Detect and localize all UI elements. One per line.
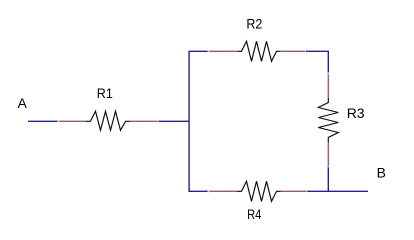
svg-text:R1: R1	[97, 85, 113, 101]
resistor R1	[57, 111, 160, 130]
resistor R3	[318, 72, 338, 168]
wire	[189, 50, 209, 52]
svg-text:R2: R2	[246, 16, 262, 32]
resistor R4	[207, 181, 308, 201]
svg-text:R4: R4	[247, 206, 261, 222]
wire	[159, 120, 189, 122]
wire	[327, 167, 329, 191]
svg-text:B: B	[377, 165, 386, 181]
wire	[307, 190, 368, 192]
wire	[28, 120, 58, 122]
resistor R2	[207, 41, 307, 61]
wire	[306, 50, 328, 52]
svg-text:R3: R3	[347, 105, 365, 121]
svg-text:A: A	[18, 95, 28, 111]
wire	[327, 51, 329, 74]
wire	[189, 190, 209, 192]
wire	[188, 51, 190, 192]
